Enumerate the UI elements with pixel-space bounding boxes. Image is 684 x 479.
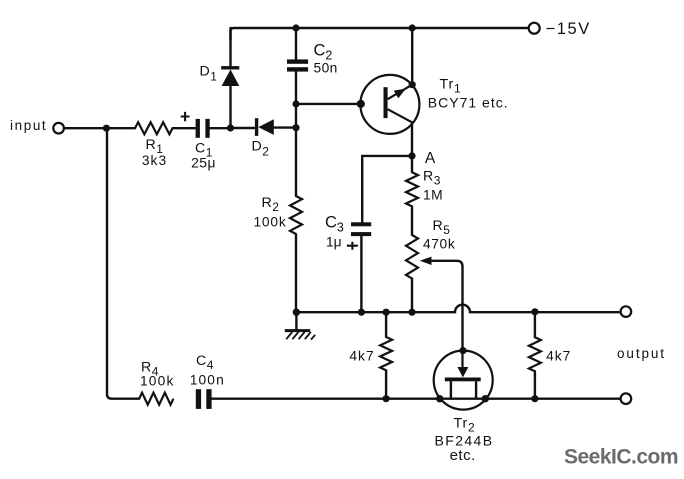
svg-text:output: output <box>617 346 666 361</box>
wire bottom output bus <box>212 398 621 400</box>
resistor 4k7 right <box>529 337 541 371</box>
node Tr2 gate dot <box>459 347 466 354</box>
wire C2 branch vertical <box>295 28 297 312</box>
node D2 R2 junction <box>292 124 299 131</box>
wire input row <box>64 126 296 129</box>
resistor R1 <box>135 122 172 134</box>
potentiometer R5 <box>406 235 418 279</box>
node emitter rail junction <box>409 24 416 31</box>
wire ground bus with hop <box>296 305 620 312</box>
node 4k7 right top junction <box>531 308 538 315</box>
svg-text:470k: 470k <box>423 236 455 251</box>
transistor Tr1 <box>360 75 419 134</box>
svg-text:input: input <box>10 118 47 133</box>
node R5 ground bus junction <box>408 309 415 316</box>
svg-text:4k7: 4k7 <box>349 349 374 364</box>
svg-text:SeekIC.com: SeekIC.com <box>564 445 678 468</box>
label C1 plus <box>181 112 190 121</box>
resistor R4 <box>139 393 173 405</box>
node input junction <box>103 125 110 132</box>
output terminal bottom <box>621 393 632 404</box>
resistor 4k7 left <box>380 337 392 370</box>
node C2 top rail junction <box>292 24 299 31</box>
svg-text:1μ: 1μ <box>326 235 342 250</box>
svg-text:100k: 100k <box>253 215 286 230</box>
svg-text:100k: 100k <box>140 374 175 389</box>
svg-text:BCY71 etc.: BCY71 etc. <box>428 95 509 111</box>
svg-text:4k7: 4k7 <box>546 349 571 364</box>
wire input branch vertical <box>107 128 139 399</box>
wire R5 wiper to Tr2 gate <box>430 261 463 351</box>
diode D1 <box>221 66 239 86</box>
wire ground stub <box>295 312 297 330</box>
ground <box>285 331 315 340</box>
output terminal top <box>621 306 632 317</box>
node A junction <box>408 152 415 159</box>
svg-text:1M: 1M <box>423 188 443 203</box>
wire R3 R5 chain <box>411 156 413 312</box>
svg-text:50n: 50n <box>314 60 338 75</box>
node C3 ground bus junction <box>358 309 365 316</box>
resistor R2 <box>290 196 302 234</box>
capacitor C2 <box>287 59 308 71</box>
svg-text:3k3: 3k3 <box>142 153 167 168</box>
wire D1 branch vertical <box>229 28 231 128</box>
wire C3 bottom to ground bus <box>360 236 362 312</box>
svg-text:25μ: 25μ <box>191 156 216 171</box>
node base junction <box>292 100 299 107</box>
svg-text:100n: 100n <box>190 373 225 388</box>
wire Tr1 emitter to rail <box>411 28 413 85</box>
svg-text:−15V: −15V <box>546 20 591 38</box>
node D1 D2 C1 junction <box>227 124 234 131</box>
transistor Tr2 (JFET) <box>434 351 493 410</box>
node ground junction <box>293 309 300 316</box>
diode D2 <box>255 118 274 136</box>
capacitor C3 <box>351 222 371 236</box>
power terminal -15V <box>529 23 540 34</box>
node base circle edge <box>357 100 365 108</box>
resistor R3 <box>406 172 418 206</box>
node Tr2 drain dot <box>482 395 489 402</box>
node 4k7 right bottom junction <box>531 395 538 402</box>
svg-text:A: A <box>425 150 436 167</box>
node 4k7 left bottom junction <box>383 395 390 402</box>
wire left 4k7 branch <box>385 312 387 399</box>
svg-text:etc.: etc. <box>450 447 476 464</box>
capacitor C1 <box>196 119 210 138</box>
potentiometer R5 wiper arrow <box>420 257 432 265</box>
wire Tr1 collector to node A <box>411 122 413 156</box>
wire top supply rail <box>231 28 529 40</box>
input terminal <box>53 123 64 134</box>
node 4k7 left top junction <box>383 309 390 316</box>
node Tr1 emitter dot <box>409 81 416 88</box>
capacitor C4 <box>196 389 212 409</box>
wire right 4k7 branch <box>534 312 536 399</box>
node Tr2 source dot <box>436 395 443 402</box>
wire node A to C3 <box>362 156 412 222</box>
wire Tr1 base <box>296 103 360 105</box>
